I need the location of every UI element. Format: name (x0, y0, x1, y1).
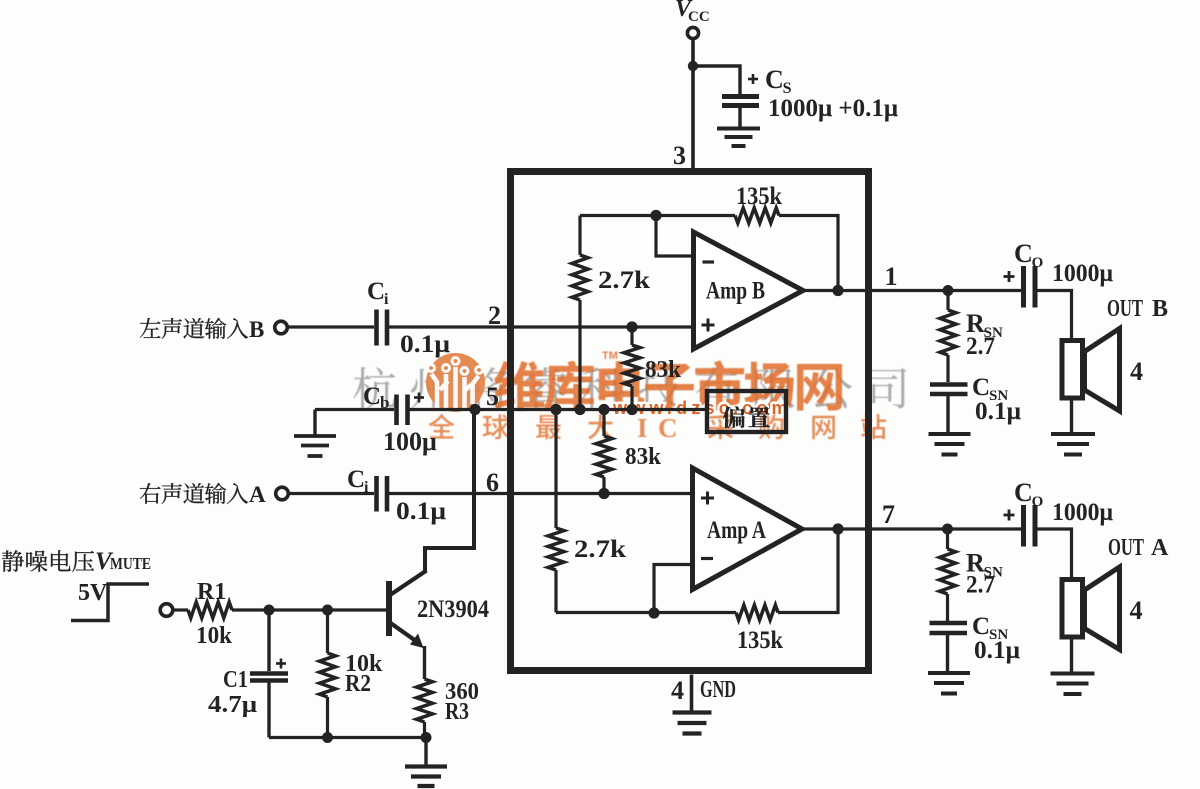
label right channel input A (140, 483, 161, 504)
plus sign Co A (1004, 514, 1015, 517)
svg-text:CC: CC (688, 9, 710, 25)
svg-text:i: i (364, 479, 369, 496)
wire Co A to speaker (1037, 529, 1072, 579)
minus sign Amp A (701, 557, 713, 560)
wire pin 4 GND (690, 675, 694, 712)
junction R1/R2 (322, 605, 333, 616)
watermark logo disc (426, 353, 485, 412)
svg-text:C: C (367, 278, 385, 305)
svg-text:O: O (1032, 494, 1044, 510)
watermark orange slogan row (429, 413, 886, 443)
wire gnd to Cb (315, 408, 394, 411)
svg-text:0.1μ: 0.1μ (396, 498, 446, 525)
svg-text:R3: R3 (445, 699, 469, 725)
wire Ci to Amp A + input (pin 6) (389, 492, 693, 495)
resistor 2.7k (lower) (554, 410, 557, 529)
resistor 83k (lower) (602, 410, 605, 437)
step waveform symbol (71, 584, 149, 621)
svg-text:C: C (1014, 478, 1033, 507)
svg-text:100μ: 100μ (383, 427, 437, 456)
junction R3/rail (421, 732, 432, 743)
svg-text:1000μ: 1000μ (1052, 260, 1113, 287)
resistor 83k (upper) (630, 327, 633, 345)
wire Co B to speaker (1037, 291, 1072, 341)
node line bottom (Amp A feedback net) (556, 611, 736, 614)
wire CSN A to ground (946, 635, 949, 672)
svg-text:83k: 83k (645, 357, 682, 383)
svg-text:2.7: 2.7 (966, 572, 995, 599)
speaker B driver (1062, 341, 1083, 399)
capacitor Co (A) plates (1021, 505, 1026, 547)
svg-text:GND: GND (700, 677, 736, 703)
wire input A to Ci (288, 492, 374, 495)
wire to Amp A inverting input (654, 565, 693, 614)
bias box (707, 391, 786, 432)
resistor RSN (B) (946, 291, 949, 311)
wire Amp B output / pin 1 (803, 289, 1021, 292)
mute input terminal (160, 604, 173, 617)
capacitor Ci (A) plates (374, 476, 379, 512)
svg-text:4: 4 (1130, 357, 1143, 386)
capacitor CSN (B) plates (930, 382, 968, 387)
wire Vcc down to pin 3 (691, 39, 695, 171)
svg-text:TM: TM (602, 350, 618, 362)
svg-text:3: 3 (673, 141, 686, 170)
capacitor C1 (267, 610, 270, 671)
svg-text:C: C (1014, 239, 1033, 268)
wire input B to Ci (287, 325, 374, 328)
wire 135k to feedback corner (779, 216, 838, 291)
svg-text:Amp B: Amp B (706, 278, 765, 305)
svg-text:C: C (658, 413, 678, 443)
junction R2/rail (322, 732, 333, 743)
svg-text:C: C (972, 374, 990, 401)
svg-text:0.1μ: 0.1μ (400, 331, 450, 358)
svg-text:135k: 135k (737, 627, 783, 654)
resistor R3 (417, 679, 433, 722)
junction Rsn B (943, 285, 954, 296)
junction pin2/83k (626, 321, 637, 332)
resistor R1 (173, 608, 188, 611)
svg-text:R2: R2 (345, 671, 371, 697)
plus sign Amp B (702, 324, 715, 327)
ground (speaker B) (1051, 432, 1095, 436)
speaker A cone (1085, 567, 1120, 650)
svg-text:2N3904: 2N3904 (417, 596, 489, 623)
wire speaker B to ground (1070, 401, 1073, 434)
input terminal A (276, 487, 289, 500)
svg-text:83k: 83k (625, 444, 662, 470)
svg-text:2.7k: 2.7k (598, 267, 650, 294)
speaker B cone (1085, 329, 1120, 412)
junction pin5 83k upper (626, 404, 637, 415)
ground (mute) (424, 738, 427, 766)
junction Rsn A (942, 524, 953, 535)
svg-text:OUT: OUT (1108, 535, 1144, 561)
watermark big orange text 维库电子市场网 (494, 350, 842, 411)
ground (speaker A) (1051, 672, 1095, 676)
svg-text:1000μ: 1000μ (1052, 499, 1113, 526)
transistor emitter with arrow (391, 623, 419, 643)
wire to Amp B inverting input (656, 216, 694, 257)
watermark gray company text (353, 367, 906, 409)
ground (pin 4) (673, 710, 712, 714)
wire CSN B to ground (946, 396, 949, 434)
svg-text:4.7μ: 4.7μ (208, 692, 257, 718)
capacitor Co (B) plates (1021, 266, 1026, 308)
svg-text:C: C (347, 466, 365, 493)
plus sign Cb (414, 396, 424, 399)
transistor Q1 2N3904 base bar (386, 581, 392, 636)
capacitor CSN (A) plates (930, 621, 968, 626)
svg-text:MUTE: MUTE (110, 554, 151, 573)
wire Cb to bias box (pin 5) (410, 408, 708, 411)
svg-text:B: B (1152, 296, 1168, 322)
wire collector to pin5 branch (472, 410, 476, 551)
resistor RSN (A) (946, 529, 949, 549)
capacitor Cb plates (394, 395, 399, 426)
svg-text:b: b (380, 393, 389, 412)
junction pin5 83k lower (598, 404, 609, 415)
svg-text:2.7k: 2.7k (574, 536, 626, 563)
capacitor Ci (B) plates (374, 310, 379, 346)
resistor 135k (B feedback) (735, 208, 779, 223)
svg-text:Amp A: Amp A (707, 517, 766, 544)
wire Cs to ground (738, 108, 741, 127)
svg-text:1: 1 (885, 262, 898, 291)
svg-text:6: 6 (486, 468, 499, 497)
svg-text:2.7: 2.7 (966, 333, 995, 360)
junction feedback B (832, 285, 843, 296)
Vcc terminal (687, 27, 698, 38)
ground (CSN B) (929, 432, 971, 436)
junction Vcc/Cs (688, 61, 698, 71)
junction node B inv (650, 210, 661, 221)
plus sign Cs (748, 78, 758, 81)
speaker A driver (1062, 580, 1083, 638)
svg-text:4: 4 (1130, 596, 1143, 625)
resistor 2.7k (B) (578, 216, 581, 256)
svg-text:B: B (249, 317, 264, 342)
node line top (Amp B inverting net) (580, 214, 735, 217)
label mute voltage Vmute (2, 550, 24, 572)
svg-text:135k: 135k (736, 183, 782, 210)
bottom rail mute (269, 736, 426, 739)
junction pin6/83k (598, 488, 609, 499)
junction pin5 collector branch (469, 404, 480, 415)
junction pin5 2.7k upper (574, 404, 585, 415)
junction node A inv (648, 607, 659, 618)
svg-text:A: A (249, 482, 266, 507)
svg-text:C: C (363, 383, 381, 410)
wire Ci to Amp B + input (pin 2) (389, 325, 694, 328)
ground (Cs) (717, 127, 760, 131)
svg-text:A: A (1151, 535, 1169, 561)
svg-text:C: C (765, 65, 784, 94)
svg-text:5: 5 (486, 382, 499, 411)
svg-text:4: 4 (671, 676, 684, 705)
svg-text:0.1μ: 0.1μ (974, 637, 1020, 664)
op-amp Amp A (693, 468, 803, 590)
op-amp Amp B (694, 232, 804, 349)
capacitor CS plates (722, 94, 759, 99)
svg-text:C: C (972, 613, 990, 640)
junction R1/C1 (264, 605, 275, 616)
label bias (pianzhi) (723, 406, 745, 428)
plus sign Amp A (701, 497, 714, 500)
svg-text:i: i (384, 291, 389, 308)
svg-text:OUT: OUT (1107, 296, 1143, 322)
junction Amp A output feedback (832, 523, 843, 534)
resistor 135k (A feedback) (736, 605, 778, 620)
wire emitter to R3 (423, 646, 426, 679)
minus sign Amp B (703, 260, 715, 263)
svg-text:C1: C1 (223, 667, 248, 693)
svg-text:1000μ +0.1μ: 1000μ +0.1μ (768, 95, 898, 122)
wire 135k to output corner (778, 529, 838, 613)
svg-text:0.1μ: 0.1μ (975, 398, 1021, 425)
ground (Cb) (313, 410, 316, 435)
svg-text:I: I (637, 413, 648, 443)
wire to capacitor Cs (693, 66, 740, 94)
svg-text:2: 2 (488, 301, 501, 330)
ground (CSN A) (928, 671, 970, 675)
resistor R2 (326, 610, 329, 653)
svg-text:R1: R1 (197, 579, 226, 605)
plus sign Co B (1004, 275, 1015, 278)
IC box U1 (511, 172, 869, 671)
svg-text:7: 7 (882, 500, 895, 529)
input terminal B (275, 321, 288, 334)
svg-text:10k: 10k (196, 623, 233, 649)
wire Amp A output / pin 7 (802, 527, 1021, 530)
plus sign C1 (276, 662, 286, 665)
svg-text:O: O (1032, 255, 1044, 271)
svg-text:5V: 5V (78, 580, 108, 606)
wire speaker A to ground (1070, 640, 1073, 673)
label left channel input B (140, 318, 161, 338)
transistor collector path (390, 571, 427, 596)
junction pin5 2.7k lower (550, 404, 561, 415)
